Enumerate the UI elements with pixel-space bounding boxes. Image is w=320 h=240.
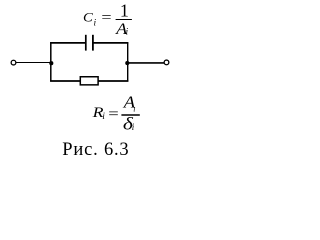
svg-text:i: i (126, 28, 129, 38)
wire left vertical branch (50, 42, 52, 81)
resistor R body (80, 77, 98, 85)
wire top branch left (50, 42, 85, 44)
capacitor C right plate (92, 35, 94, 51)
svg-text:=: = (101, 11, 111, 26)
svg-text:=: = (108, 107, 119, 123)
node B junction dot (125, 61, 129, 65)
wire right vertical branch (127, 42, 129, 81)
svg-text:ı: ı (133, 105, 135, 114)
svg-text:C: C (83, 10, 93, 25)
svg-text:Рис. 6.3: Рис. 6.3 (62, 140, 129, 160)
wire top branch right (93, 42, 128, 44)
wire left terminal to node A (16, 62, 51, 64)
label fraction bar bottom (121, 114, 139, 116)
svg-text:i: i (94, 19, 97, 29)
left terminal (11, 60, 16, 65)
right terminal (164, 60, 169, 65)
svg-text:i: i (132, 122, 135, 132)
wire node B to right terminal (128, 62, 164, 64)
svg-text:1: 1 (120, 1, 129, 21)
svg-text:i: i (102, 112, 105, 122)
label fraction bar top (116, 19, 132, 21)
wire bottom branch left (50, 80, 80, 82)
capacitor C left plate (85, 35, 87, 51)
wire bottom branch right (98, 80, 128, 82)
node A junction dot (49, 61, 53, 65)
